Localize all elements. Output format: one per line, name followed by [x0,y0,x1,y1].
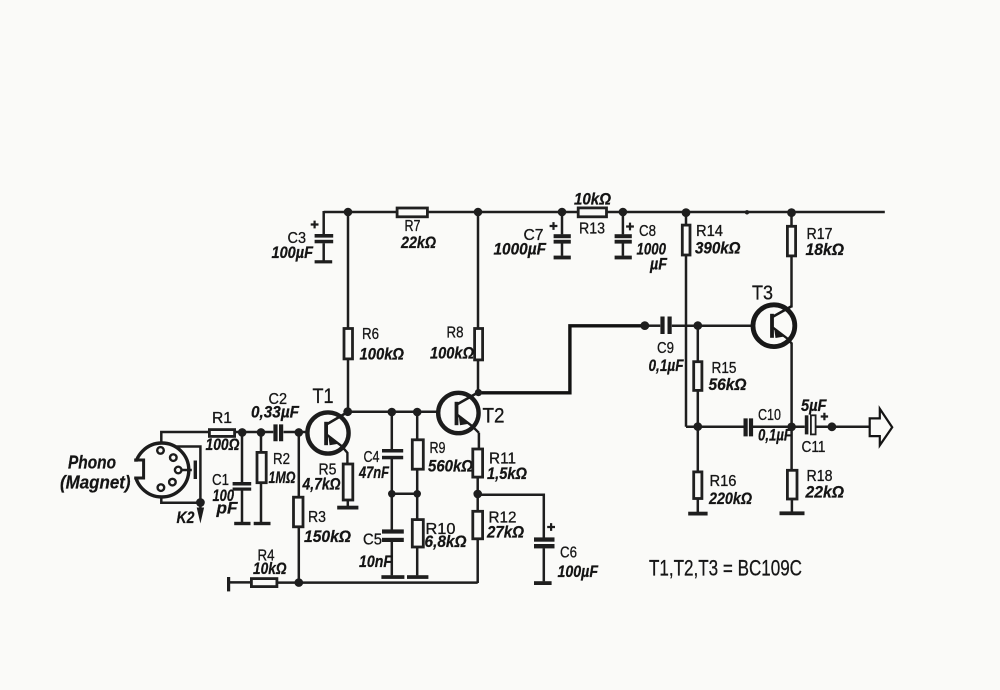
resistor R4 [227,548,287,592]
svg-text:C9: C9 [657,340,674,357]
resistor R13 [574,191,611,238]
wire: V+ supply rail [324,211,885,214]
svg-text:0,1µF: 0,1µF [649,357,685,375]
resistor R10 [407,494,467,579]
wire: ground bus along bottom [277,581,478,584]
svg-text:R1: R1 [212,410,232,427]
node: T2 collector corner [475,389,482,396]
resistor R3 [294,433,352,583]
node: rail/R17 [787,208,796,217]
wire: socket shield loop to K2 node [161,447,200,503]
resistor R9 [412,412,473,494]
capacitor C8 [615,212,668,274]
svg-text:T1: T1 [313,385,334,408]
node: C4/C5-R9 link left [388,490,396,498]
capacitor C3 [272,211,334,263]
node: C11 out [828,422,837,431]
node: T3 emitter/C10 [787,423,796,432]
svg-text:1MΩ: 1MΩ [269,469,296,487]
svg-text:560kΩ: 560kΩ [428,458,473,476]
resistor R6 [344,212,404,412]
svg-text:R7: R7 [405,218,421,235]
resistor R2 [254,433,296,525]
capacitor C5 [359,494,404,579]
svg-text:C10: C10 [758,407,781,424]
svg-text:22kΩ: 22kΩ [400,234,436,252]
svg-text:T2: T2 [483,405,505,428]
capacitor C10 [686,407,805,445]
svg-text:10kΩ: 10kΩ [574,191,611,209]
resistor R7 [397,208,436,252]
svg-text:R8: R8 [447,325,464,342]
svg-text:4,7kΩ: 4,7kΩ [302,476,341,494]
node: rail/R8 [474,208,483,217]
svg-text:100kΩ: 100kΩ [360,346,405,364]
svg-text:R14: R14 [696,223,723,240]
resistor R18 [780,468,845,515]
wire: C4/C5 node to R9/R10 node [392,493,417,496]
capacitor C11 [801,397,832,456]
svg-text:C8: C8 [639,223,656,240]
capacitor C4 [358,412,403,494]
K2 ground arrow [177,503,205,527]
wire: thick signal feed T2 collector to C9 [478,326,645,393]
node: feed/C9 [640,321,649,330]
svg-text:100µF: 100µF [272,244,314,262]
svg-text:6,8kΩ: 6,8kΩ [425,533,467,551]
resistor R1 [161,410,273,454]
node: R9 top [413,408,422,417]
svg-text:R3: R3 [308,509,326,526]
svg-text:R13: R13 [579,221,605,238]
svg-text:R15: R15 [712,360,737,377]
node: C4 top [388,408,397,417]
svg-text:T1,T2,T3 = BC109C: T1,T2,T3 = BC109C [649,556,802,581]
node: R15/R16/C10 [694,422,703,431]
svg-text:µF: µF [649,256,668,274]
node: rail/C7 [558,208,567,217]
node: R15 top [694,321,703,330]
node: rail small blob [745,210,749,214]
svg-text:R18: R18 [807,468,833,485]
svg-text:R2: R2 [273,451,290,468]
label: transistor types [649,556,802,581]
resistor R11 [473,433,527,494]
transistor T2 [438,392,504,433]
svg-text:150kΩ: 150kΩ [304,528,351,546]
resistor R12 [473,494,524,583]
resistor R5 [302,462,359,510]
svg-text:10nF: 10nF [359,553,393,571]
resistor R14 [682,212,740,427]
svg-text:27kΩ: 27kΩ [486,524,524,542]
node: K2 [196,498,205,507]
capacitor C1 [212,433,251,525]
svg-text:0,33µF: 0,33µF [251,404,300,422]
node: R11/R12/C6 [473,490,482,499]
svg-text:C6: C6 [560,545,577,562]
svg-text:22kΩ: 22kΩ [805,484,845,502]
svg-text:100µF: 100µF [558,563,599,581]
svg-text:47nF: 47nF [358,464,389,482]
resistor R8 [430,212,483,393]
svg-text:220kΩ: 220kΩ [708,490,752,508]
capacitor C6 [478,495,599,585]
svg-text:C5: C5 [363,532,382,549]
svg-text:0,1µF: 0,1µF [758,427,793,445]
node: rail/C8 [619,208,628,217]
svg-text:(Magnet): (Magnet) [60,472,131,493]
svg-text:1000µF: 1000µF [494,241,547,259]
node: R1/R2 [257,428,266,437]
wire: T3 emitter column [790,343,793,471]
node: rail/C3-R6 [344,208,353,217]
wire: T1 collector node to T2 base [348,410,439,413]
svg-text:R6: R6 [362,326,379,343]
transistor T1 [307,385,348,464]
svg-text:R9: R9 [430,440,446,457]
svg-text:T3: T3 [752,283,773,305]
node: C2/T1 base [295,428,304,437]
label: phono input [60,452,131,493]
capacitor C7 [494,212,571,259]
svg-text:100kΩ: 100kΩ [430,345,474,363]
output arrow [832,409,892,446]
svg-text:100Ω: 100Ω [206,436,240,454]
node: T1 collector [343,407,352,416]
svg-text:1,5kΩ: 1,5kΩ [487,465,527,483]
node: R3/R4 bus [295,578,304,587]
svg-text:Phono: Phono [68,452,116,473]
transistor T3 [752,283,795,347]
resistor R16 [688,427,752,516]
node: link right R10 [413,490,421,498]
resistor R17 [787,212,844,308]
connector K2 (DIN phono socket) [130,443,198,497]
resistor R15 [694,326,747,427]
svg-text:10kΩ: 10kΩ [253,560,287,578]
svg-text:R16: R16 [710,473,737,490]
svg-text:K2: K2 [177,509,195,527]
svg-text:pF: pF [215,500,238,518]
capacitor C9 [645,317,753,376]
svg-text:390kΩ: 390kΩ [695,240,741,258]
node: rail/R14 [682,208,691,217]
svg-text:5µF: 5µF [801,397,827,415]
node: R1/C1 [238,428,247,437]
svg-text:18kΩ: 18kΩ [806,241,845,259]
svg-text:C11: C11 [802,439,826,456]
capacitor C2 [251,391,307,441]
svg-text:56kΩ: 56kΩ [709,376,747,394]
